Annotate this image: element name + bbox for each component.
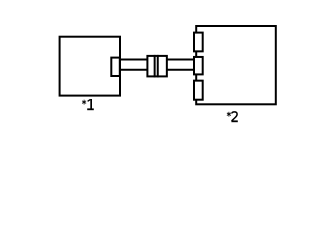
connector slot 2 on device *2 xyxy=(194,57,203,74)
wire cable between device 1 and device 2 xyxy=(119,60,194,70)
inline connector pair on cable xyxy=(147,55,166,78)
connector on device *1 xyxy=(111,58,120,76)
connector slot 3 on device *2 xyxy=(194,81,203,100)
label *2 xyxy=(227,112,238,122)
device box *1 xyxy=(60,37,120,96)
label *1 xyxy=(82,99,94,109)
device box *2 xyxy=(196,26,276,104)
connector slot 1 on device *2 xyxy=(194,33,203,52)
